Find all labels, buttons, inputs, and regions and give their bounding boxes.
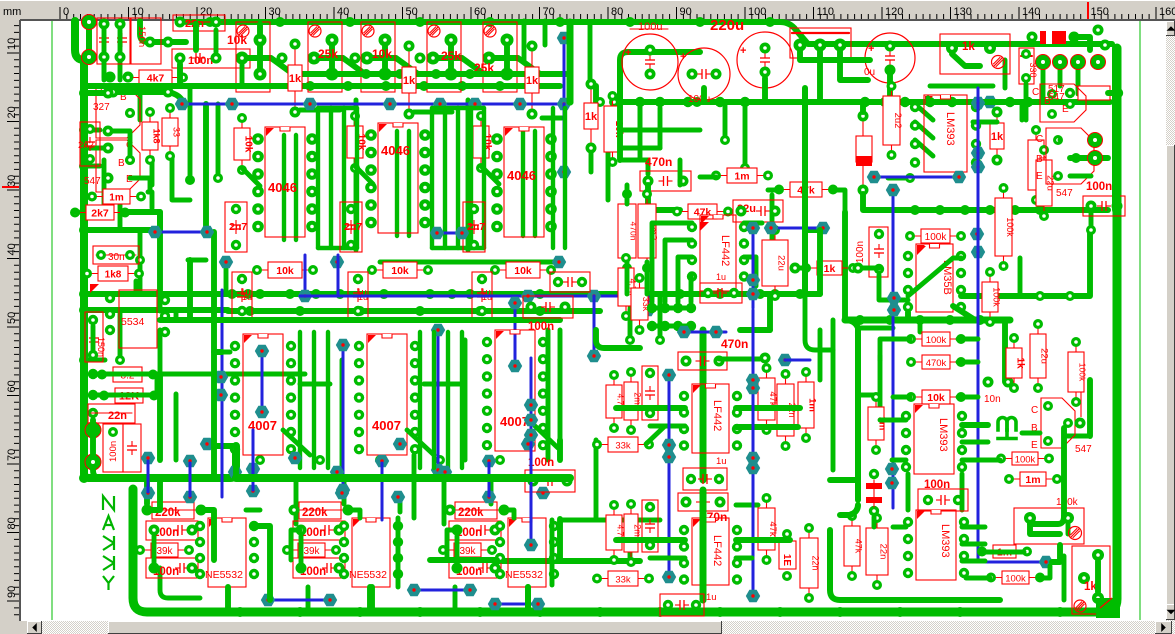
via <box>375 455 389 467</box>
wire <box>342 108 346 248</box>
wire <box>650 424 685 429</box>
capacitor 100n U8 <box>293 521 345 540</box>
via <box>183 455 197 467</box>
svg-text:60: 60 <box>6 380 18 392</box>
svg-text:47k: 47k <box>767 521 778 537</box>
capacitor 2n7 <box>225 202 247 252</box>
wire blue <box>414 589 470 592</box>
svg-text:LF442: LF442 <box>711 535 723 566</box>
wire <box>501 510 514 518</box>
wire <box>448 46 454 68</box>
resistor 220k U7 <box>152 502 194 519</box>
wire blue bus y296 <box>300 295 648 298</box>
wire <box>316 108 320 248</box>
via <box>431 324 445 336</box>
svg-text:547: 547 <box>1056 188 1073 199</box>
svg-text:1m: 1m <box>1025 474 1040 486</box>
wire <box>830 477 858 483</box>
svg-text:0: 0 <box>63 6 69 18</box>
wire <box>560 518 660 523</box>
wire <box>225 587 231 612</box>
wire <box>892 458 906 463</box>
capacitor 100n U8 <box>293 558 345 578</box>
pad <box>1036 55 1051 70</box>
svg-text:22n: 22n <box>108 410 127 422</box>
svg-text:NE5532: NE5532 <box>205 569 243 581</box>
via <box>746 374 760 386</box>
op-amp U15 LF442 <box>692 518 729 585</box>
op-amp U9 NE5532 <box>508 518 546 587</box>
via <box>246 485 260 497</box>
wire <box>1064 434 1090 439</box>
capacitor 100n U9 <box>449 521 501 540</box>
wire blue <box>977 88 980 560</box>
wire <box>905 312 911 320</box>
svg-text:1k: 1k <box>403 75 416 87</box>
svg-text:70: 70 <box>6 449 18 461</box>
svg-text:547: 547 <box>84 176 101 187</box>
wire <box>93 470 100 478</box>
capacitor 1u vert <box>642 500 658 552</box>
wire bus y102 right <box>620 99 1110 105</box>
board guide line left <box>51 21 53 620</box>
svg-text:220k: 220k <box>302 507 328 519</box>
via <box>524 539 538 551</box>
wire <box>588 22 593 86</box>
via <box>303 98 317 110</box>
via <box>971 97 985 109</box>
wire <box>84 146 108 151</box>
via <box>677 326 691 338</box>
resistor 33k <box>599 578 647 580</box>
wire <box>678 160 683 185</box>
pad col outline <box>79 88 89 98</box>
wire top bus <box>186 19 780 25</box>
svg-text:25k: 25k <box>441 49 461 63</box>
svg-text:1m: 1m <box>807 398 818 412</box>
wire <box>355 108 359 248</box>
wire <box>294 478 299 524</box>
resistor 1m <box>984 551 1025 553</box>
svg-text:LM393: LM393 <box>944 112 956 146</box>
wire <box>254 526 270 600</box>
capacitor 100n vert <box>103 424 123 472</box>
wire <box>214 294 222 352</box>
wire <box>1020 102 1025 120</box>
board guide line right <box>1139 21 1141 620</box>
pad row y294 <box>243 289 253 299</box>
via <box>183 491 197 503</box>
svg-text:160: 160 <box>1159 6 1175 18</box>
resistor 1m <box>1011 478 1055 480</box>
svg-text:33: 33 <box>172 127 182 137</box>
transistor Q1 327 <box>96 86 140 138</box>
svg-text:22u: 22u <box>1039 348 1050 364</box>
resistor 1k <box>996 112 998 160</box>
pad row y210r <box>910 205 920 215</box>
wire <box>345 510 360 518</box>
wire <box>652 306 691 311</box>
pad <box>686 303 696 313</box>
wire bus y478 ext <box>236 474 570 482</box>
via <box>746 382 760 394</box>
resistor 100k <box>912 235 959 237</box>
via <box>433 98 447 110</box>
wire <box>1040 566 1050 578</box>
svg-text:327: 327 <box>93 102 110 113</box>
pad <box>213 173 223 183</box>
wire <box>130 178 150 192</box>
wire <box>652 223 692 302</box>
wire <box>342 478 347 504</box>
via <box>246 463 260 475</box>
via <box>141 487 155 499</box>
wire vertical main <box>700 330 707 480</box>
wire <box>1112 48 1120 210</box>
pad <box>1091 55 1106 70</box>
wire <box>460 332 464 468</box>
svg-text:100k: 100k <box>1015 454 1036 465</box>
wire <box>147 478 160 510</box>
wire blue <box>978 561 1046 564</box>
svg-text:40: 40 <box>6 243 18 255</box>
via <box>488 598 502 610</box>
wire <box>446 332 450 468</box>
svg-text:90: 90 <box>680 6 692 18</box>
resistor 47k <box>679 211 726 213</box>
pad row y74 <box>288 69 298 79</box>
resistor 12K <box>106 395 152 397</box>
pad <box>647 321 657 331</box>
wire <box>962 422 988 428</box>
wire blue <box>514 303 517 366</box>
wire <box>432 332 436 468</box>
via <box>508 297 522 309</box>
wire <box>958 337 978 342</box>
wire <box>522 21 527 60</box>
wire <box>90 420 96 455</box>
wire <box>150 158 155 185</box>
wire <box>108 131 130 160</box>
svg-text:4046: 4046 <box>507 168 536 183</box>
capacitor 100n U7 <box>146 521 198 540</box>
wire <box>489 478 494 504</box>
svg-text:220u: 220u <box>710 17 744 34</box>
wire <box>525 587 531 612</box>
resistor 1k8 <box>89 273 137 275</box>
via <box>200 438 214 450</box>
wire <box>863 194 903 210</box>
svg-text:470n: 470n <box>629 222 639 241</box>
wire <box>113 92 182 100</box>
resistor 4.7k <box>625 260 627 314</box>
svg-text:70: 70 <box>543 6 555 18</box>
pad <box>82 50 97 65</box>
wire <box>414 110 452 115</box>
wire <box>102 61 107 80</box>
svg-text:30: 30 <box>269 6 281 18</box>
wire <box>833 190 845 210</box>
wire <box>165 260 190 320</box>
pad <box>115 355 125 365</box>
via <box>524 414 538 426</box>
svg-text:47k: 47k <box>767 391 778 407</box>
capacitor C2 150n <box>131 18 161 64</box>
wire <box>958 395 978 400</box>
svg-text:2n7: 2n7 <box>344 221 362 233</box>
wire <box>180 64 200 86</box>
capacitor C big 100u right <box>865 33 915 83</box>
wire <box>104 61 110 77</box>
via <box>255 345 269 357</box>
wire <box>567 24 574 102</box>
via <box>885 463 899 475</box>
via <box>330 466 344 478</box>
wire <box>845 320 858 500</box>
pad <box>983 377 994 388</box>
wire <box>329 46 335 68</box>
resistor 100k <box>989 274 991 320</box>
svg-text:LM393: LM393 <box>937 418 949 452</box>
svg-text:1k: 1k <box>962 41 975 53</box>
resistor 47k <box>851 518 853 574</box>
capacitor 1u <box>550 272 590 292</box>
wire <box>216 104 221 178</box>
svg-text:+: + <box>680 51 686 63</box>
via <box>983 96 997 108</box>
svg-text:470n: 470n <box>645 155 672 169</box>
wire <box>172 158 190 200</box>
wire <box>840 51 868 80</box>
wire <box>606 152 611 200</box>
wire <box>858 326 893 331</box>
capacitor 2m2 <box>630 374 632 428</box>
svg-text:220k: 220k <box>458 507 484 519</box>
via <box>557 166 571 178</box>
pad <box>108 87 119 98</box>
wire <box>665 240 692 302</box>
svg-text:30: 30 <box>6 175 18 187</box>
wire <box>962 458 1000 463</box>
IC U3 4046 <box>504 127 544 237</box>
via <box>746 462 760 474</box>
svg-text:C: C <box>1032 87 1039 98</box>
via <box>971 147 985 159</box>
wire <box>557 519 563 561</box>
capacitor 1u <box>232 272 252 318</box>
wire <box>300 382 330 387</box>
wire <box>620 52 700 102</box>
wire bus y320 right <box>845 317 1010 324</box>
via <box>531 598 545 610</box>
op-amp U12 LF442 <box>700 215 736 291</box>
via <box>335 487 349 499</box>
via <box>885 477 899 489</box>
pad big <box>85 422 101 438</box>
capacitor 470n <box>678 352 727 370</box>
resistor 39k U9 <box>445 549 490 551</box>
via <box>524 399 538 411</box>
wire <box>800 51 870 60</box>
wire <box>242 58 293 74</box>
wire <box>740 327 770 333</box>
pad <box>686 321 696 331</box>
pad big <box>85 454 101 470</box>
via <box>513 98 527 110</box>
capacitor 22n <box>785 376 787 444</box>
wire <box>543 21 548 45</box>
svg-text:1k8: 1k8 <box>105 269 122 280</box>
svg-text:2n2: 2n2 <box>78 140 94 151</box>
svg-text:10k: 10k <box>276 265 294 277</box>
trimmer P5 25k <box>501 34 514 47</box>
via <box>641 304 655 316</box>
pad <box>103 88 114 99</box>
wire diag <box>915 104 933 120</box>
wire <box>1095 561 1101 592</box>
wire <box>960 474 965 510</box>
wire <box>432 106 484 110</box>
svg-text:25k: 25k <box>318 47 338 61</box>
resistor 220k U8 <box>299 502 341 519</box>
wire <box>102 160 107 212</box>
svg-text:1m: 1m <box>734 170 749 182</box>
wire <box>616 405 685 411</box>
capacitor 2n2 <box>80 122 100 166</box>
svg-text:1k: 1k <box>585 111 598 123</box>
resistor 39k U8 <box>289 549 334 551</box>
via <box>971 161 985 173</box>
wire <box>188 86 193 102</box>
resistor 100k <box>913 338 959 340</box>
via <box>709 326 723 338</box>
resistor 10k <box>913 396 959 398</box>
via <box>336 339 350 351</box>
wire <box>1062 556 1067 600</box>
IC U6 4007 <box>495 330 535 451</box>
wire <box>382 46 388 68</box>
resistor 470k <box>913 361 959 363</box>
pad <box>145 37 156 48</box>
svg-text:100k: 100k <box>992 287 1002 307</box>
wire <box>1087 380 1093 436</box>
svg-text:LM393: LM393 <box>939 524 951 558</box>
wire blue <box>563 104 566 172</box>
wire <box>736 556 752 561</box>
wire <box>118 195 123 230</box>
wire top-left drop <box>75 21 84 60</box>
wire under U2 <box>395 131 399 236</box>
svg-text:100n: 100n <box>528 321 554 333</box>
wire <box>257 46 263 68</box>
wire <box>805 227 820 233</box>
svg-text:10k: 10k <box>372 47 392 61</box>
via <box>430 227 444 239</box>
via <box>746 288 760 300</box>
wire <box>546 332 550 458</box>
wire blue <box>752 228 755 308</box>
wire <box>442 478 447 524</box>
wire <box>593 86 599 102</box>
svg-text:mm: mm <box>3 6 21 18</box>
wire <box>831 320 836 470</box>
capacitor 100n <box>93 246 139 264</box>
resistor 10k <box>259 269 311 271</box>
svg-text:10k: 10k <box>927 392 945 404</box>
pad row y460 <box>255 455 265 465</box>
wire <box>658 296 663 340</box>
svg-text:33k: 33k <box>615 574 631 585</box>
wire <box>617 102 623 160</box>
wire <box>723 104 728 140</box>
via <box>746 222 760 234</box>
svg-text:1k: 1k <box>526 75 539 87</box>
pad <box>760 353 771 364</box>
resistor 100k <box>1003 458 1047 460</box>
wire <box>962 440 988 445</box>
via <box>323 594 337 606</box>
resistor 1k <box>1013 340 1015 386</box>
via <box>746 274 760 286</box>
wire diag <box>481 166 499 184</box>
trimmer P4 25k <box>445 34 458 47</box>
wire <box>542 116 562 121</box>
wire <box>628 530 633 561</box>
wire <box>1003 60 1008 88</box>
via <box>200 226 214 238</box>
svg-text:20: 20 <box>200 6 212 18</box>
svg-text:80: 80 <box>611 6 623 18</box>
wire <box>1024 84 1029 120</box>
wire blue <box>495 603 538 606</box>
wire <box>1010 232 1090 296</box>
wire blue <box>874 176 959 179</box>
svg-text:140: 140 <box>1022 6 1040 18</box>
wire bus y86 <box>84 83 560 89</box>
via <box>438 466 452 478</box>
resistor 1k <box>294 44 296 112</box>
wire <box>594 440 599 520</box>
resistor 4k7 <box>130 77 181 79</box>
wire <box>453 587 458 612</box>
wire bus y262 <box>380 260 560 265</box>
wire <box>246 508 260 513</box>
op-amp U13 LM358 <box>916 244 953 312</box>
wire diag <box>355 166 373 184</box>
resistor 10k <box>612 98 614 160</box>
capacitor 150n <box>85 312 103 362</box>
wire <box>144 478 150 504</box>
wire <box>118 28 123 53</box>
wire <box>962 542 985 547</box>
via <box>393 438 407 450</box>
wire <box>888 176 910 181</box>
wire <box>158 330 163 374</box>
pad row y102r <box>595 97 605 107</box>
capacitor 1u <box>472 272 492 318</box>
svg-text:C: C <box>1036 134 1043 145</box>
wire <box>736 424 798 430</box>
svg-text:10: 10 <box>132 6 144 18</box>
capacitor 470n <box>640 171 691 191</box>
svg-text:1E: 1E <box>781 554 792 567</box>
pad <box>1093 25 1104 36</box>
via <box>468 98 482 110</box>
via <box>662 439 676 451</box>
wire <box>691 274 692 302</box>
capacitor 22n <box>876 520 878 583</box>
wire <box>306 587 311 612</box>
